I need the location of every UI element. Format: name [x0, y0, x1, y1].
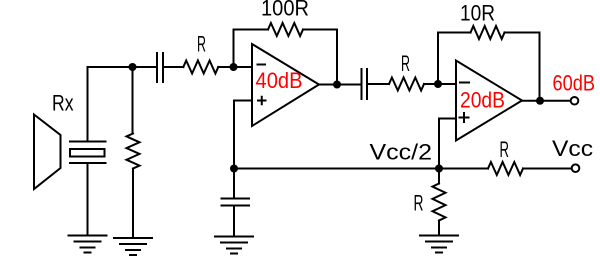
resistor R divider lower (vertical)	[433, 184, 446, 221]
resistor R1 (series input R)	[183, 61, 218, 74]
svg-text:20dB: 20dB	[460, 88, 505, 113]
wire upper divider R to Vcc terminal	[523, 168, 572, 170]
op-amp U1 triangle	[252, 44, 319, 126]
junction dot input node	[129, 63, 137, 71]
svg-text:R: R	[401, 51, 410, 76]
svg-text:R: R	[197, 32, 206, 57]
resistor R divider upper (rail to Vcc)	[488, 162, 523, 175]
svg-text:R: R	[500, 137, 510, 162]
wire R1 to op-amp U1 inverting input	[218, 66, 252, 68]
junction dot U1 inverting input	[230, 63, 238, 71]
capacitor C1 input coupling	[157, 53, 163, 82]
resistor 100R feedback of U1	[268, 23, 303, 36]
transducer Rx speaker cone	[34, 115, 61, 190]
junction dot U1 output	[333, 81, 341, 89]
junction dot rail at C3	[230, 165, 238, 173]
svg-text:Rx: Rx	[52, 91, 74, 116]
minus sign U1	[258, 64, 266, 66]
svg-text:40dB: 40dB	[256, 68, 303, 93]
wire divider resistor to ground	[438, 221, 440, 236]
svg-text:100R: 100R	[261, 0, 309, 21]
svg-text:60dB: 60dB	[553, 71, 596, 96]
capacitor C3 decoupling to ground	[222, 199, 250, 206]
wire U1 output to C2	[319, 84, 361, 86]
wire U1 non-inverting input down to Vcc/2 rail	[234, 101, 252, 169]
junction dot U2 inverting input	[434, 80, 442, 88]
wire rail node down to decoupling cap C3	[233, 169, 235, 199]
op-amp U2 triangle	[456, 61, 522, 141]
piezo crystal element of Rx	[70, 142, 106, 164]
resistor 10R feedback of U2	[471, 26, 505, 39]
resistor bias (vertical, under input node)	[127, 134, 140, 169]
svg-text:R: R	[414, 191, 424, 216]
junction dot U2 output	[536, 97, 544, 105]
terminal Vcc circle	[572, 164, 580, 172]
wire input net: crystal top up and right to coupling cap	[88, 67, 157, 142]
plus sign U2	[460, 113, 469, 122]
ground under C3	[215, 237, 253, 254]
ground under divider resistor	[420, 236, 458, 253]
ground under crystal	[69, 236, 107, 253]
terminal 60dB output circle	[571, 97, 579, 105]
wire Vcc/2 rail	[234, 168, 488, 170]
wire feedback U2: node up, across, down to output	[438, 33, 540, 101]
svg-text:10R: 10R	[460, 1, 495, 26]
svg-text:Vcc: Vcc	[552, 136, 593, 161]
wire bias resistor to ground	[132, 169, 134, 239]
ground under bias resistor	[114, 238, 152, 255]
junction dot rail at divider	[435, 165, 443, 173]
svg-text:Vcc/2: Vcc/2	[370, 140, 433, 165]
resistor R2 (series R second stage)	[389, 78, 424, 91]
wire rail node down to divider resistor	[438, 169, 440, 184]
wire U2 non-inverting input down to Vcc/2 rail	[439, 119, 456, 169]
wire C3 to ground	[233, 206, 235, 237]
wire node to bias resistor	[132, 67, 134, 134]
plus sign U1	[258, 97, 266, 105]
wire U2 output to 60dB terminal	[522, 100, 571, 102]
wire C1 to R1	[164, 66, 183, 68]
wire R2 to op-amp U2 inverting input	[424, 83, 456, 85]
wire feedback U1: node up, across, down to output	[234, 30, 338, 85]
wire crystal bottom to ground	[87, 163, 89, 236]
capacitor C2 interstage coupling	[362, 69, 368, 99]
wire C2 to R2	[368, 83, 389, 85]
minus sign U2	[460, 82, 469, 84]
